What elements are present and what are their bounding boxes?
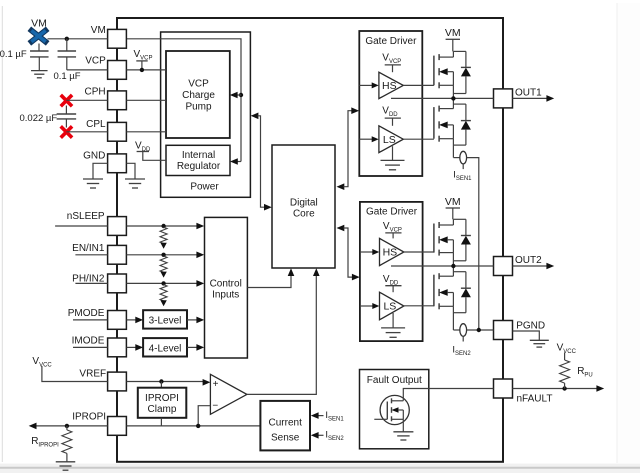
wire HS source to phase node 1 [452, 85, 454, 98]
pin label EN/IN1 [72, 243, 105, 254]
svg-text:IMODE: IMODE [72, 336, 105, 347]
current sense element I_SEN2 [460, 324, 467, 342]
pin PH/IN2 [108, 274, 127, 293]
svg-text:Charge: Charge [182, 90, 215, 101]
svg-text:Internal: Internal [182, 150, 215, 161]
label R_PU [577, 366, 593, 379]
page edge right [617, 3, 640, 463]
junction dot IPROPI minus tap [196, 424, 200, 428]
pin label IMODE [72, 336, 105, 347]
svg-text:0.022 µF: 0.022 µF [19, 113, 57, 124]
wire CPH [66, 99, 107, 101]
pin VCP [108, 61, 127, 80]
rail bar V_VCP [136, 61, 147, 70]
Power label [190, 181, 219, 192]
label C1 0.1uF [0, 49, 27, 60]
svg-text:Power: Power [190, 181, 219, 192]
Power block box [161, 32, 251, 197]
svg-text:VCP: VCP [188, 79, 209, 90]
pulldown resistor on PH/IN2 [160, 285, 167, 307]
svg-text:Clamp: Clamp [148, 404, 177, 415]
pin CPH [108, 91, 127, 110]
Internal Regulator block U-REG [166, 145, 230, 175]
VCP Charge Pump block U-CP [166, 51, 230, 138]
wire LS source to sense 2 [453, 306, 460, 330]
wire arrow into internal regulator [230, 158, 241, 165]
svg-text:PGND: PGND [516, 320, 545, 331]
svg-text:Digital: Digital [290, 198, 318, 209]
net label V_DD at regulator [135, 140, 151, 153]
wire VM to HS drain 1 [452, 39, 455, 57]
svg-text:Gate Driver: Gate Driver [365, 36, 417, 47]
svg-text:Fault Output: Fault Output [367, 375, 422, 386]
pin VM [108, 29, 127, 48]
pin CPL [108, 122, 127, 141]
Fault Output block [360, 370, 429, 449]
svg-text:IPROPI: IPROPI [145, 393, 179, 404]
svg-text:HS: HS [382, 80, 397, 92]
svg-text:Regulator: Regulator [177, 161, 221, 172]
wire LS source to sense 1 [453, 139, 460, 158]
wire VM to charge pump and regulator [127, 39, 242, 162]
wire HS source to phase node 2 [452, 253, 454, 266]
pin label VM [91, 25, 106, 36]
wire into HS buffer 2 [360, 249, 379, 255]
wire VM to HS drain 2 [452, 208, 455, 225]
blue X symbol on VM input [31, 31, 45, 42]
pin label GND [83, 150, 105, 161]
wire CPH pin to charge pump [127, 99, 167, 101]
wire nFAULT external [513, 385, 605, 392]
pin label IPROPI [72, 412, 106, 423]
wire VM input [48, 38, 108, 40]
wire op-amp minus input [198, 406, 210, 426]
svg-text:3-Level: 3-Level [149, 316, 182, 327]
pin nSLEEP [108, 217, 127, 236]
pulldown resistor on EN/IN1 [160, 256, 167, 278]
HS driver buffer 2 [380, 238, 404, 265]
wire IMODE input stub [73, 346, 108, 348]
wire PMODE input stub [73, 319, 108, 321]
junction dot PH/IN2 pulldown [161, 281, 165, 285]
pin OUT2 [494, 257, 513, 276]
ground left of GND pin [83, 179, 103, 188]
junction dot phase 1 [451, 96, 455, 100]
wire PMODE to 3-Level [127, 317, 144, 324]
LS driver buffer 2 [380, 292, 404, 320]
ground under C1 [31, 71, 48, 78]
pin label CPH [84, 87, 105, 98]
wire LS drain from phase node 2 [452, 266, 454, 276]
svg-text:VM: VM [91, 25, 106, 36]
pin EN/IN1 [108, 245, 127, 264]
wire fault source to ground [402, 419, 404, 432]
gate driver block U1 [359, 31, 422, 176]
svg-text:Current: Current [269, 417, 303, 428]
high-side NMOS Q3 [434, 219, 471, 260]
wire VCP pin to C2 [67, 69, 108, 71]
pin VREF [108, 372, 127, 391]
svg-text:CPL: CPL [86, 119, 106, 130]
svg-text:Gate Driver: Gate Driver [366, 207, 418, 218]
IC boundary box [117, 18, 503, 462]
4-Level block [143, 338, 187, 356]
pin label VREF [79, 369, 106, 380]
wire Power to Digital Core [251, 113, 272, 211]
Digital Core block [272, 145, 335, 268]
wire PH/IN2 to Control Inputs [127, 280, 205, 287]
label C3 0.022uF [19, 113, 57, 124]
pin label nSLEEP [67, 211, 105, 222]
ground under R_IPROPI [56, 462, 76, 470]
svg-text:−: − [212, 401, 218, 412]
net label I_SEN2 [452, 344, 471, 357]
svg-text:LS: LS [383, 134, 396, 146]
3-Level block [143, 310, 187, 328]
junction dot phase 2 [451, 264, 455, 268]
wire VREF from V_VCC [42, 366, 108, 382]
wire LS gate 1 [403, 138, 434, 140]
pin label PMODE [68, 308, 105, 319]
wire VREF to op-amp [127, 379, 211, 386]
junction dot EN/IN1 pulldown [161, 253, 165, 257]
wire I_SEN2 into current sense [311, 432, 324, 439]
pin PMODE [108, 311, 127, 330]
wire HS gate 1 [403, 84, 434, 86]
svg-text:VREF: VREF [79, 369, 106, 380]
pin label PH/IN2 [72, 274, 105, 285]
pulldown resistor on nSLEEP [160, 227, 167, 249]
svg-text:+: + [213, 379, 219, 390]
wire I_SEN1 into current sense [311, 412, 324, 419]
wire clamp top stub [160, 382, 162, 388]
svg-text:Inputs: Inputs [212, 290, 239, 301]
net label V_VCP at VCP pin [134, 49, 153, 62]
rail V_VCP in gate driver 2 [383, 221, 402, 238]
net label I_SEN1 [453, 169, 472, 182]
wire clamp bottom stub [160, 418, 162, 426]
wire GND pin right to ground [127, 163, 136, 179]
wire GND pin left to ground [93, 163, 108, 179]
svg-text:PMODE: PMODE [68, 308, 105, 319]
low-side NMOS Q2 [434, 104, 471, 145]
wire Control Inputs to Digital Core [247, 268, 294, 287]
open-drain fault transistor Q5 [374, 395, 409, 424]
rail VM label half-bridge 2 [445, 196, 461, 208]
svg-text:HS: HS [383, 247, 398, 259]
wire PGND to ground [513, 331, 540, 340]
wire LS gate 2 [403, 305, 434, 307]
wire nSLEEP to Control Inputs [127, 223, 205, 230]
rail bar V_DD to regulator [137, 152, 166, 161]
wire 3-Level to Control Inputs [187, 317, 204, 324]
page bottom bar [0, 464, 640, 473]
red X symbol on CPL [62, 128, 71, 137]
wire CPL pin to charge pump [127, 131, 167, 133]
svg-text:LS: LS [383, 301, 396, 313]
wire fault drain to nFAULT [403, 389, 493, 401]
pin IMODE [108, 338, 127, 357]
Control Inputs block [205, 217, 248, 358]
page edge left [1, 6, 3, 462]
svg-text:OUT1: OUT1 [515, 87, 542, 98]
net label I_SEN1 at current sense [325, 410, 344, 423]
svg-text:VM: VM [445, 27, 461, 39]
capacitor C3 0.022uF CPH to CPL [57, 106, 77, 128]
red X symbol on CPH [62, 96, 71, 105]
wire LS drain from phase node 1 [452, 98, 454, 108]
wire op-amp output to Digital Core [247, 268, 320, 394]
pin label nFAULT [517, 394, 553, 405]
ground in gate driver 2 [381, 313, 405, 337]
gate driver block U2 [360, 202, 423, 341]
svg-text:CPH: CPH [84, 87, 105, 98]
resistor R_IPROPI [62, 426, 72, 462]
rail VM label half-bridge 1 [445, 27, 461, 40]
LS driver buffer 1 [379, 126, 403, 153]
svg-text:nFAULT: nFAULT [517, 394, 553, 405]
svg-text:IPROPI: IPROPI [72, 412, 106, 423]
wire EN/IN1 to Control Inputs [127, 252, 205, 259]
wire arrow into charge pump [230, 92, 241, 99]
wire sense to PGND pin [467, 329, 494, 331]
rail V_DD in gate driver 1 [382, 105, 401, 125]
wire IMODE to 4-Level [127, 344, 144, 351]
wire 4-Level to Control Inputs [187, 344, 204, 351]
ground in gate driver 1 [381, 146, 405, 170]
pin label PGND [516, 320, 545, 331]
svg-text:Sense: Sense [271, 432, 300, 443]
wire ISEN1 to PGND net [467, 158, 479, 330]
rail V_VCP in gate driver 1 [382, 53, 401, 72]
capacitor C2 0.1uF VM to VCP [58, 39, 77, 70]
HS driver buffer 1 [379, 72, 403, 98]
op-amp current sense amplifier [210, 374, 247, 414]
junction dot nSLEEP pulldown [161, 224, 165, 228]
high-side NMOS Q1 [434, 51, 471, 93]
svg-text:0.1 µF: 0.1 µF [0, 49, 27, 60]
net label V_VCC right [557, 343, 577, 356]
svg-text:Control: Control [210, 279, 242, 290]
wire OUT1 external [513, 95, 555, 102]
wire PH/IN2 input stub [75, 282, 107, 284]
wire into LS buffer 1 [359, 136, 378, 142]
label C2 0.1uF [53, 71, 80, 82]
svg-text:Pump: Pump [185, 102, 212, 113]
wire CPL [66, 131, 107, 133]
wire into HS buffer 1 [359, 82, 378, 88]
rail V_DD in gate driver 2 [383, 274, 402, 292]
pin label OUT2 [515, 255, 542, 266]
junction dot VREF clamp [159, 379, 163, 383]
svg-text:Core: Core [293, 209, 315, 220]
svg-text:VCP: VCP [85, 55, 106, 66]
pin IPROPI [108, 417, 127, 436]
net label V_VCC left [32, 356, 52, 369]
svg-text:GND: GND [83, 150, 105, 161]
ground at PGND [530, 340, 549, 347]
junction dot nFAULT pullup [562, 386, 566, 390]
wire Digital Core to gate driver 1 [337, 107, 360, 190]
wire phase node 2 to OUT2 [391, 265, 494, 267]
ground at fault output [393, 432, 413, 440]
svg-text:OUT2: OUT2 [515, 255, 542, 266]
junction dot PGND net [477, 328, 481, 332]
pin OUT1 [494, 89, 513, 108]
junction dot V_VCP [140, 68, 144, 72]
wire EN/IN1 input stub [75, 254, 107, 256]
junction dot VM feed [239, 93, 243, 97]
node VM label top-left [31, 18, 47, 30]
junction dot VM input [65, 37, 69, 41]
pin PGND [494, 321, 513, 340]
wire into LS buffer 2 [360, 303, 379, 309]
svg-text:EN/IN1: EN/IN1 [72, 243, 105, 254]
svg-text:0.1 µF: 0.1 µF [53, 71, 80, 82]
pin label VCP [85, 55, 106, 66]
current sense element I_SEN1 [460, 151, 467, 169]
wire phase node 1 to OUT1 [391, 97, 494, 99]
Current Sense block [260, 401, 310, 451]
wire Digital Core to gate driver 2 [337, 225, 360, 281]
svg-text:nSLEEP: nSLEEP [67, 211, 105, 222]
capacitor C1 0.1uF VM to GND [30, 44, 49, 71]
pin nFAULT [494, 379, 513, 398]
svg-text:4-Level: 4-Level [149, 344, 182, 355]
wire HS gate 2 [403, 251, 434, 253]
IPROPI Clamp block [138, 388, 187, 418]
junction dot IPROPI resistor [65, 424, 69, 428]
svg-text:VM: VM [445, 196, 461, 208]
label R_IPROPI [31, 436, 59, 449]
pin label OUT1 [515, 87, 542, 98]
wire VCP pin to charge pump [127, 69, 167, 71]
pin label CPL [86, 119, 106, 130]
low-side NMOS Q4 [434, 272, 471, 313]
pin GND [108, 154, 127, 173]
resistor R_PU pull-up [560, 353, 570, 389]
ground right of GND pin [125, 179, 145, 188]
wire OUT2 external [513, 263, 555, 270]
net label I_SEN2 at current sense [325, 430, 344, 443]
wire nSLEEP input stub [55, 225, 108, 227]
wire IPROPI row [29, 423, 261, 430]
